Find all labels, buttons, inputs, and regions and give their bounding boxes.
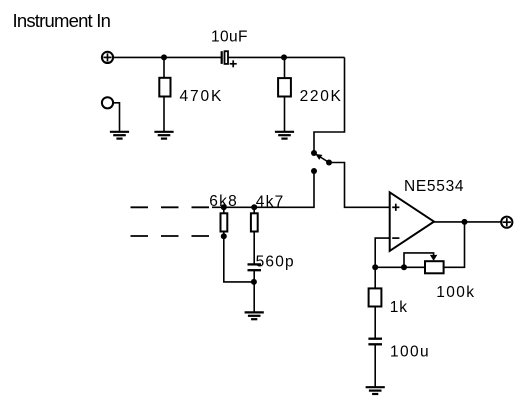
connector J1 sleeve (102, 97, 113, 108)
node: junction R4 top (251, 204, 257, 210)
wire: feedback node to VR1 left (375, 266, 425, 268)
resistor R3 6k8 (221, 213, 228, 231)
resistor R1 470K (159, 78, 170, 97)
resistor R5 1k (369, 288, 382, 306)
resistor R4 4k7 (251, 213, 258, 231)
connector J2 (output +) (501, 217, 512, 228)
wire: junction down to R1 (163, 57, 165, 78)
dashed line (lower option link) (131, 235, 210, 237)
node: junction C2 bottom / R3 leg (251, 279, 257, 285)
ground (input sleeve) (110, 132, 129, 139)
switch SW1 throw contact (to opamp) (326, 160, 332, 166)
wire: R5 to C3 (374, 307, 376, 339)
dashed line (upper option link) (131, 206, 210, 208)
op-amp U1 NE5534 (390, 192, 434, 251)
wire: op-amp inverting input to feedback node (375, 238, 390, 267)
node: junction input/R1 (161, 54, 167, 60)
node: junction below R3 (dashed link) (221, 233, 227, 239)
wire: R1 to ground (163, 97, 165, 132)
potentiometer VR1 100k body (425, 261, 444, 273)
wire: C1 to corner top-right (228, 56, 344, 58)
capacitor C3 100u (368, 339, 382, 345)
wire: output junction down to VR1 right (444, 222, 465, 267)
wire: R3 bottom down then right to C2 bottom node (224, 232, 254, 282)
svg-text:220K: 220K (300, 88, 343, 105)
switch SW1 throw contact (to divider) (311, 168, 317, 174)
wire: top rail down to switch common (314, 57, 345, 153)
resistor R2 220K (278, 78, 291, 96)
wire: R4 bottom to C2 top plate (253, 232, 255, 265)
wire: sleeve to ground (113, 103, 119, 132)
wire: C3 to ground (374, 344, 376, 387)
wire: op-amp output to J2 (434, 221, 501, 223)
svg-text:4k7: 4k7 (256, 194, 285, 211)
svg-text:100u: 100u (390, 343, 430, 360)
svg-text:10uF: 10uF (211, 28, 248, 45)
svg-text:560p: 560p (256, 253, 295, 270)
wire: input to C1 left plate (113, 56, 221, 58)
wire: switch lower contact down and left along divider rail (212, 171, 314, 207)
svg-text:470K: 470K (180, 88, 224, 105)
svg-text:NE5534: NE5534 (404, 178, 464, 195)
node: feedback junction (inverting) (372, 264, 378, 270)
svg-text:1k: 1k (390, 299, 408, 316)
wire: rail to R3 (223, 207, 225, 213)
ground (below R1) (154, 132, 173, 139)
svg-text:Instrument In: Instrument In (13, 10, 111, 31)
node: output junction (462, 219, 468, 225)
node: wiper junction (401, 264, 407, 270)
capacitor C2 560p (248, 264, 262, 270)
wire: switch contact to op-amp + input (329, 163, 390, 208)
node: junction R2 top (281, 54, 287, 60)
wire: feedback junction down to R5 (374, 267, 376, 288)
svg-text:100k: 100k (436, 284, 475, 301)
wire: R2 to ground (284, 97, 286, 132)
ground (below C2) (245, 312, 264, 319)
capacitor C1 10uF (polarized) (222, 51, 237, 67)
potentiometer VR1 wiper wire and arrow (404, 253, 437, 267)
ground (below R2) (275, 132, 294, 139)
node: junction R3 top (221, 204, 227, 210)
ground (below C3) (366, 387, 385, 394)
switch SW1 common node (311, 150, 317, 156)
switch SW1 lever with arrow (315, 154, 329, 163)
wire: C2 bottom to ground (253, 270, 255, 312)
wire: junction down to R2 (284, 57, 286, 78)
wire: rail to R4 (253, 207, 255, 213)
connector J1 tip (input +) (102, 52, 113, 63)
